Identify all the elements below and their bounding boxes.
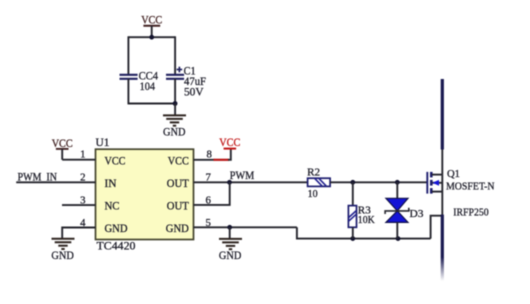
wire CC4 top lead [127, 36, 129, 74]
wire pin7 to R2 [194, 181, 308, 183]
wire C1 top lead [174, 36, 176, 74]
junction R3 bottom [350, 236, 355, 241]
svg-text:VCC: VCC [168, 155, 189, 167]
wire CC4 bottom lead [127, 79, 129, 105]
svg-text:GND: GND [105, 223, 128, 235]
junction D3 top [395, 180, 400, 185]
svg-text:GND: GND [166, 223, 189, 235]
drain stub [432, 174, 443, 176]
transistor Q1 (N-MOSFET) [427, 168, 494, 219]
svg-text:D3: D3 [410, 208, 424, 220]
svg-text:GND: GND [163, 127, 186, 139]
svg-text:R2: R2 [307, 166, 320, 178]
wire drain bus (thick) [441, 79, 444, 150]
op-amp U1 body (TC4420 driver) [96, 137, 194, 252]
power symbol VCC (pin 8, red) [219, 137, 240, 149]
ground (top section) [163, 115, 186, 138]
wire pin3 stub [62, 204, 96, 206]
source arrow stub [432, 182, 442, 184]
junction top rail [149, 35, 154, 40]
svg-text:VCC: VCC [219, 137, 240, 149]
svg-text:10: 10 [308, 188, 318, 200]
svg-text:GND: GND [51, 250, 74, 262]
svg-text:104: 104 [140, 81, 156, 93]
channel segment bottom [430, 188, 433, 194]
resistor R3 [348, 205, 375, 228]
svg-text:OUT: OUT [167, 178, 189, 190]
wire pin8 riser [228, 149, 231, 160]
resistor R2 [307, 166, 330, 200]
svg-text:GND: GND [219, 250, 242, 262]
junction pin7/pin6 [227, 180, 232, 185]
svg-text:IRFP250: IRFP250 [453, 207, 489, 219]
wire bottom rail [128, 103, 175, 105]
source/drain vertical [441, 175, 443, 216]
wire bottom net step [297, 227, 431, 238]
gate bar [426, 172, 428, 194]
wire C1 bottom lead [174, 79, 176, 105]
svg-text:OUT: OUT [167, 200, 189, 212]
wire R2 to gate [330, 181, 427, 183]
svg-text:U1: U1 [96, 137, 110, 149]
svg-text:NC: NC [105, 200, 120, 212]
svg-text:Q1: Q1 [447, 168, 460, 180]
ground (pin 5 net) [219, 239, 242, 262]
wire R3 top lead [352, 182, 354, 205]
junction D3 bottom [396, 236, 401, 241]
wire top VCC rail [128, 36, 175, 38]
svg-text:8: 8 [207, 149, 212, 161]
power symbol VCC (top) [141, 15, 162, 38]
wire R3 bottom lead [352, 227, 354, 238]
svg-text:MOSFET-N: MOSFET-N [446, 180, 495, 192]
channel segment top [430, 172, 433, 178]
wire pin1 [62, 159, 95, 161]
capacitor C1 (polarized) [166, 66, 206, 99]
wire source bus fade [441, 257, 444, 281]
arrow [432, 180, 439, 186]
svg-text:50V: 50V [184, 87, 204, 99]
ground (pin 4) [51, 239, 74, 263]
wire GND stem (pin5) [229, 227, 231, 238]
channel segment middle [430, 180, 433, 186]
wire pin2 [16, 181, 95, 183]
wire D3 top lead [396, 182, 398, 198]
svg-text:IN: IN [105, 178, 117, 190]
wire drain thin [441, 149, 443, 175]
wire pin8 (dark part) [194, 159, 215, 161]
capacitor CC4 [120, 71, 159, 94]
wire source bus (thick) [441, 215, 444, 258]
wire pin4 [62, 228, 95, 239]
wire source riser [431, 216, 443, 239]
wire pin6 [194, 182, 230, 205]
junction pin5/GND [227, 225, 232, 230]
wire pin8 (red part) [214, 159, 230, 161]
svg-text:10K: 10K [358, 214, 375, 226]
diode D3 (bidirectional TVS) [385, 198, 423, 222]
junction R3 top [350, 180, 355, 185]
wire pin5 [194, 226, 297, 228]
wire D3 bottom lead [396, 222, 398, 238]
power symbol VCC (pin 1) [52, 138, 73, 160]
wire to GND (top section) [174, 104, 176, 116]
junction bottom rail [173, 101, 178, 106]
svg-text:VCC: VCC [105, 155, 126, 167]
source bottom stub [432, 191, 443, 193]
svg-text:PWM: PWM [230, 170, 255, 182]
svg-text:TC4420: TC4420 [97, 241, 136, 253]
